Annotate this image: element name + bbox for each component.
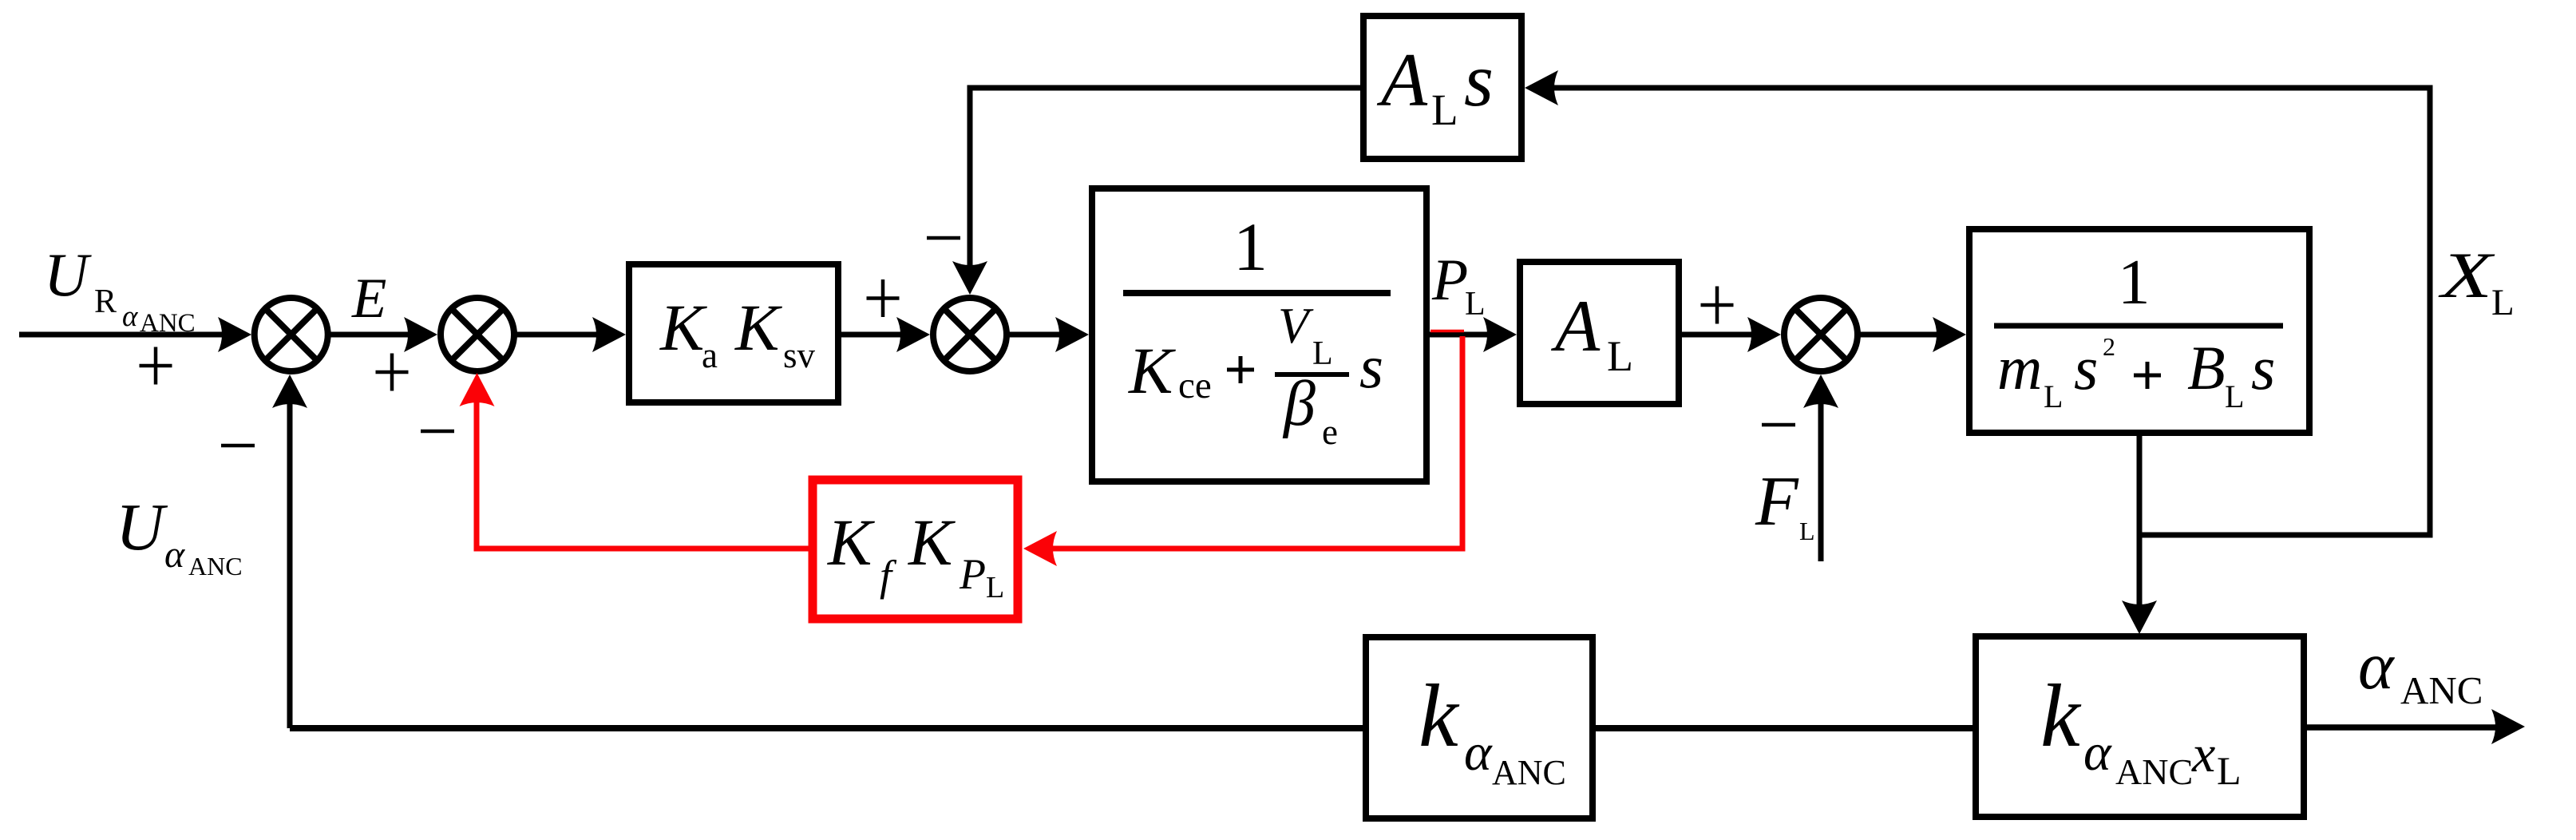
node label U_alpha_ANC — [116, 490, 243, 580]
summing junction S1 — [255, 298, 328, 371]
svg-text:U: U — [116, 490, 168, 565]
svg-text:s: s — [2074, 333, 2098, 402]
block KfKPL (pressure feedback, red) — [813, 480, 1018, 619]
svg-text:m: m — [1997, 333, 2042, 402]
minus sign at S3 top input — [927, 236, 960, 240]
summing junction S4 — [1784, 298, 1858, 371]
wire: AL s output left then down into S3 (minus) — [970, 88, 1360, 272]
wire: load block output down, tee to XL feedback and to k_alphaANCxL — [1547, 88, 2430, 535]
svg-text:R: R — [94, 283, 117, 320]
wire: S2 to block KaKsv — [514, 332, 603, 338]
svg-text:F: F — [1755, 463, 1799, 541]
node label F_L — [1755, 463, 1815, 545]
svg-text:sv: sv — [783, 335, 816, 375]
wire: AL to S4 — [1679, 332, 1759, 338]
svg-text:α: α — [1464, 723, 1493, 782]
svg-text:K: K — [659, 291, 707, 364]
svg-text:L: L — [2491, 282, 2515, 323]
svg-text:K: K — [734, 291, 782, 364]
wire: big block to AL block (PL signal) — [1430, 332, 1494, 338]
svg-text:ANC: ANC — [140, 309, 196, 338]
svg-text:L: L — [1465, 286, 1486, 323]
svg-text:1: 1 — [1233, 208, 1268, 285]
svg-text:L: L — [1431, 85, 1458, 134]
block 1/(Kce + VL/betae s) hydraulic continuity — [1092, 188, 1426, 481]
svg-text:L: L — [2225, 378, 2244, 414]
svg-text:P: P — [959, 550, 986, 598]
summing junction S2 — [441, 298, 514, 371]
svg-text:s: s — [1464, 38, 1494, 122]
svg-text:ANC: ANC — [2115, 751, 2193, 792]
plus sign at S4 left input — [1701, 287, 1734, 324]
svg-text:k: k — [1419, 667, 1460, 766]
wire: between k_alphaANC and k_alphaANCxL — [1596, 725, 1973, 731]
svg-text:a: a — [702, 335, 718, 375]
svg-text:K: K — [908, 505, 956, 579]
block k_alphaANCxL (angle conversion) — [1976, 636, 2304, 817]
svg-text:α: α — [122, 300, 139, 333]
svg-text:L: L — [986, 571, 1004, 604]
svg-text:f: f — [880, 552, 897, 600]
svg-text:x: x — [2191, 725, 2215, 783]
plus sign at S2 left input — [376, 354, 409, 391]
svg-text:s: s — [2251, 333, 2275, 402]
wire: S4 to load block — [1858, 332, 1944, 338]
plus sign at S1 left input — [140, 347, 172, 385]
svg-text:A: A — [1550, 285, 1601, 367]
svg-text:L: L — [2217, 748, 2242, 793]
node label U_R_alpha_ANC — [44, 240, 196, 338]
svg-text:E: E — [351, 267, 386, 330]
svg-text:P: P — [1431, 248, 1468, 313]
svg-text:α: α — [2358, 628, 2396, 703]
block KaKsv (amplifier + servo valve gain) — [629, 264, 838, 402]
svg-text:1: 1 — [2118, 246, 2151, 318]
wire: S1 to S2, label E — [328, 332, 415, 338]
svg-text:s: s — [1359, 332, 1383, 401]
block AL (ram area) — [1520, 262, 1679, 404]
svg-text:e: e — [1322, 412, 1338, 452]
svg-text:L: L — [2044, 378, 2063, 414]
svg-text:K: K — [1128, 334, 1176, 407]
minus sign at S4 bottom input — [1762, 423, 1795, 427]
node label X_L — [2438, 239, 2515, 323]
svg-text:ANC: ANC — [2400, 668, 2483, 712]
node label alpha_ANC output — [2358, 628, 2483, 712]
red wire: KfKPL output left then up into S2 (minus) — [477, 397, 809, 549]
svg-text:L: L — [1799, 517, 1815, 545]
node label P_L — [1431, 248, 1486, 323]
wire: S1 feedback from bottom line up into S1 (minus) — [287, 397, 293, 728]
minus sign at S1 bottom input — [221, 444, 255, 448]
svg-text:2: 2 — [2103, 332, 2115, 361]
wire: bottom feedback line from k_alphaANC to left riser — [290, 725, 1363, 731]
wire: F_L disturbance input into S4 — [1818, 397, 1824, 561]
svg-text:ANC: ANC — [188, 552, 243, 580]
block 1/(mL s^2 + BL s) load dynamics — [1969, 229, 2309, 433]
svg-text:ce: ce — [1178, 365, 1212, 406]
svg-text:B: B — [2187, 333, 2226, 402]
wire: input U_R to summing junction S1 — [19, 332, 228, 338]
svg-text:K: K — [827, 505, 875, 579]
block k_alphaANC (feedback gain) — [1366, 637, 1593, 818]
wire: KaKsv to S3 — [841, 332, 908, 338]
svg-text:k: k — [2040, 667, 2082, 766]
red wire: PL tap down and left into KfKPL block — [1430, 330, 1464, 333]
svg-text:L: L — [1312, 335, 1333, 372]
minus sign at S2 bottom input — [421, 430, 454, 434]
svg-text:ANC: ANC — [1492, 753, 1566, 792]
svg-text:X: X — [2438, 239, 2495, 311]
svg-text:L: L — [1607, 332, 1633, 380]
svg-text:U: U — [44, 240, 92, 309]
plus sign at S3 left input — [867, 279, 900, 317]
block AL s (flow feedback) — [1363, 16, 1521, 159]
svg-text:α: α — [164, 533, 185, 576]
svg-text:A: A — [1376, 38, 1428, 122]
wire: alpha_ANC output arrow — [2307, 724, 2503, 731]
wire: S3 to big hydraulic block — [1007, 332, 1066, 338]
svg-text:V: V — [1278, 298, 1314, 354]
svg-text:β: β — [1282, 369, 1316, 439]
svg-text:α: α — [2083, 723, 2112, 782]
summing junction S3 — [933, 298, 1007, 371]
